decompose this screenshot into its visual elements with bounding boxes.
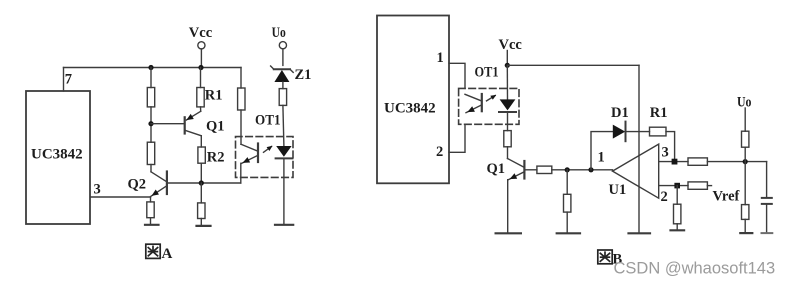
node junction pin3 (square)	[672, 159, 678, 165]
transistor Q2	[151, 172, 167, 197]
svg-text:Vref: Vref	[713, 189, 740, 205]
wire into OT1 box	[240, 110, 242, 144]
pin 1 wire	[449, 63, 465, 88]
wire to ground	[676, 224, 678, 231]
svg-text:1: 1	[598, 150, 605, 166]
svg-text:OT1: OT1	[255, 113, 281, 129]
svg-text:A: A	[162, 246, 173, 262]
svg-text:Q1: Q1	[206, 119, 225, 135]
wire rail corner down to OT1	[240, 68, 242, 89]
svg-text:Vcc: Vcc	[499, 37, 523, 53]
svg-text:Q2: Q2	[128, 177, 147, 193]
ground (node C)	[557, 232, 580, 234]
Vcc terminal circle	[198, 42, 205, 49]
wire Vref stub	[707, 185, 711, 187]
ground (rail drop)	[629, 232, 651, 234]
wire left rail upper	[150, 68, 152, 88]
wire node down	[744, 162, 746, 205]
op-amp U1 triangle	[613, 144, 659, 198]
node junction D	[588, 167, 593, 172]
resistor Uo upper	[742, 131, 749, 147]
svg-text:Uo: Uo	[272, 25, 286, 41]
OT1 LED diode	[276, 146, 293, 158]
svg-text:1: 1	[437, 50, 444, 66]
svg-text:UC3842: UC3842	[31, 147, 83, 163]
OT1 light arrow	[264, 146, 273, 153]
node junction Vcc (B)	[505, 63, 510, 68]
wire LED to resistor	[507, 112, 509, 131]
wire to ground	[200, 219, 202, 226]
transistor Q1B	[508, 159, 525, 180]
caption 图A	[146, 244, 160, 258]
node B junction	[199, 180, 204, 185]
resistor Uo lower	[742, 205, 749, 220]
svg-text:3: 3	[662, 145, 669, 161]
resistor node C pulldown	[564, 194, 571, 212]
wire R2 to node B	[200, 163, 202, 183]
node junction Uo row	[743, 159, 748, 164]
resistor R1	[197, 88, 204, 107]
wire to ground	[566, 212, 568, 233]
Uo stub wire	[282, 49, 284, 66]
pin 3 wire	[659, 161, 688, 163]
wire R1 top	[200, 68, 202, 88]
wire to node	[744, 147, 746, 161]
resistor bias lower	[147, 142, 154, 164]
ground (cap)	[762, 232, 773, 234]
wire node C down	[566, 170, 568, 195]
optocoupler OT1 dashed box	[236, 137, 294, 178]
OT1B LED diode	[499, 99, 516, 112]
ground (Q2 emitter)	[145, 224, 159, 226]
wire to ground	[150, 218, 152, 225]
node A junction	[148, 121, 153, 126]
resistor bias upper	[147, 88, 154, 107]
Vcc stub wire	[200, 49, 202, 68]
resistor pin2 pulldown	[674, 204, 681, 224]
wire LED to ground	[283, 158, 285, 224]
diode D1	[613, 122, 626, 142]
wire Z1 to resistor	[282, 82, 284, 89]
pin 3 wire	[91, 196, 151, 198]
wire pin2 node down	[676, 186, 678, 205]
node junction on rail (left)	[148, 65, 153, 70]
resistor node B pulldown	[198, 203, 205, 219]
svg-text:Z1: Z1	[295, 67, 312, 83]
svg-text:OT1: OT1	[475, 65, 499, 81]
resistor R2	[198, 147, 205, 163]
resistor R1B	[650, 127, 667, 136]
wire Q2 emitter down	[150, 197, 152, 202]
wire left rail middle	[150, 107, 152, 142]
Uo terminal circle	[279, 42, 286, 49]
wire into OT1 LED	[283, 105, 284, 146]
optocoupler OT1B dashed box	[459, 88, 519, 124]
svg-text:Q1: Q1	[487, 161, 506, 177]
ground (Q1B emitter)	[496, 232, 521, 234]
wire node row y=183	[168, 182, 241, 184]
wire R1 to Q1 emitter	[200, 107, 202, 111]
wire cap to ground	[766, 204, 768, 233]
capacitor C1	[762, 198, 772, 204]
svg-text:7: 7	[65, 72, 72, 88]
resistor Q2 emitter	[147, 202, 154, 218]
wire node B down	[200, 183, 202, 203]
Vcc stub wire (B)	[506, 51, 508, 66]
IC U1A UC3842 box	[26, 91, 90, 224]
wire pin3 row to cap corner	[707, 161, 766, 163]
ground (node B)	[197, 225, 211, 227]
svg-text:Vcc: Vcc	[189, 25, 213, 41]
svg-text:R1: R1	[205, 88, 223, 104]
svg-text:UC3842: UC3842	[384, 101, 436, 117]
OT1B phototransistor	[465, 94, 482, 113]
zener Z1	[271, 66, 294, 82]
node junction pin2	[674, 183, 680, 189]
svg-text:D1: D1	[611, 105, 629, 121]
wire to ground	[744, 219, 746, 233]
pin 2 wire	[449, 124, 465, 152]
svg-text:R2: R2	[207, 150, 225, 166]
svg-text:Uo: Uo	[737, 95, 752, 111]
wire rail drop to ground	[638, 65, 640, 233]
wire R1 corner down to pin3	[666, 132, 675, 162]
node junction C	[565, 167, 570, 172]
pin 7 stub wire	[63, 68, 65, 92]
OT1B light arrow	[487, 95, 497, 101]
svg-text:2: 2	[436, 144, 443, 160]
Uo stub wire (B)	[744, 108, 746, 131]
wire feedback riser	[591, 132, 613, 170]
ground (pin2 divider)	[671, 229, 685, 231]
transistor Q1	[185, 111, 202, 135]
wire cap branch	[766, 162, 768, 198]
wire D1 to R1	[626, 131, 650, 133]
ground (Uo divider)	[740, 232, 752, 234]
resistor pin2 series	[688, 182, 707, 189]
svg-text:3: 3	[94, 182, 101, 198]
resistor base series	[537, 166, 552, 173]
resistor Uo branch	[279, 89, 286, 106]
wire left rail to Q2	[150, 165, 152, 172]
node junction on rail (Vcc)	[198, 65, 203, 70]
wire resistor to Q1B	[507, 147, 509, 159]
svg-text:CSDN @whaosoft143: CSDN @whaosoft143	[614, 260, 776, 278]
wire OT1 emitter down to node row	[240, 163, 242, 183]
svg-text:2: 2	[661, 189, 668, 205]
wire Q1B base	[526, 169, 537, 171]
resistor pin3 series	[688, 158, 707, 165]
svg-text:U1: U1	[609, 182, 627, 198]
wire Q1 base	[151, 123, 184, 125]
caption 图B	[598, 250, 612, 264]
resistor OT1 collector	[238, 88, 245, 110]
pin 2 wire	[659, 185, 688, 187]
IC U1B UC3842 box	[377, 16, 449, 184]
svg-text:R1: R1	[650, 105, 668, 121]
wire Q1 collector to R2	[200, 136, 202, 147]
ground (LED)	[275, 224, 293, 226]
resistor LED series	[504, 131, 511, 147]
wire Q1B emitter to ground	[507, 180, 509, 234]
wire to U1 input	[552, 169, 613, 171]
Vcc rail wire (top)	[64, 67, 242, 69]
Vcc rail wire (B)	[507, 64, 639, 66]
wire Vcc into OT1B LED	[506, 65, 508, 99]
OT1 phototransistor	[241, 144, 258, 164]
